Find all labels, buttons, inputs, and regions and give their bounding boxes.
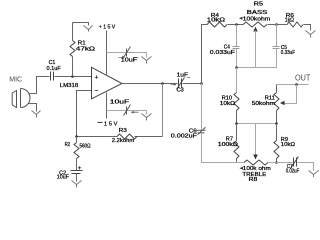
svg-text:C3: C3 xyxy=(177,87,184,93)
capacitor C1 xyxy=(51,72,54,81)
wire feedback vertical xyxy=(162,84,164,137)
svg-text:10uF: 10uF xyxy=(110,100,129,106)
wire R6 to ground xyxy=(304,25,311,31)
node junction at +input bias xyxy=(71,75,74,78)
wire op-amp output xyxy=(122,83,178,85)
wire treble wiper stem xyxy=(255,124,257,156)
node rail left xyxy=(235,66,238,69)
svg-text:BASS: BASS xyxy=(247,10,268,16)
wire C1 to op-amp + input xyxy=(55,76,92,78)
svg-text:100kΩ: 100kΩ xyxy=(218,142,238,148)
capacitor C6 xyxy=(197,127,206,135)
node feedback left junction xyxy=(75,135,78,138)
wire OUT line xyxy=(277,84,309,86)
wire mid rail xyxy=(237,123,277,125)
node C5 top xyxy=(275,23,278,26)
svg-text:LM318: LM318 xyxy=(60,83,79,89)
svg-text:2.2kohm: 2.2kohm xyxy=(112,138,134,144)
wire mic upper terminal to C1 node xyxy=(29,77,50,94)
wire tone input node down to C6 xyxy=(201,84,203,130)
capacitor C5 branch xyxy=(276,25,278,47)
svg-text:MIC: MIC xyxy=(9,75,22,84)
wire pot to C7 xyxy=(269,162,293,164)
svg-text:10kΩ: 10kΩ xyxy=(220,101,235,107)
svg-text:0.33uF: 0.33uF xyxy=(281,50,295,56)
svg-text:0.033uF: 0.033uF xyxy=(210,50,235,56)
wire C6 down to bottom rail xyxy=(202,134,245,163)
wire R1 top to ground xyxy=(73,23,89,26)
resistor R9 xyxy=(276,124,278,141)
op-amp U1 LM318 xyxy=(92,67,123,99)
potentiometer R8 TREBLE xyxy=(244,160,268,165)
wire pot to R6 xyxy=(268,24,288,26)
svg-text:15V: 15V xyxy=(104,122,118,128)
node output junction xyxy=(161,82,164,85)
capacitor C4 branch xyxy=(236,25,238,47)
svg-text:OUT: OUT xyxy=(295,74,310,83)
wire bass wiper stem xyxy=(255,31,257,68)
svg-text:1kΩ: 1kΩ xyxy=(285,17,294,23)
svg-text:100kohm: 100kohm xyxy=(243,17,270,23)
capacitor bypass 10uF (bottom) xyxy=(124,105,131,116)
capacitor C2 xyxy=(71,171,83,174)
resistor R4 xyxy=(207,22,227,27)
ground (bottom bypass) xyxy=(142,111,152,121)
resistor R3 xyxy=(117,134,137,139)
svg-text:10uF: 10uF xyxy=(121,58,137,64)
svg-text:1uF: 1uF xyxy=(177,73,188,79)
ground (C7) xyxy=(309,171,319,178)
svg-text:0.002uF: 0.002uF xyxy=(171,134,197,140)
capacitor bypass 10uF (top) xyxy=(124,47,131,58)
svg-text:0.02uF: 0.02uF xyxy=(286,169,299,175)
wire C4 node down to R10 xyxy=(236,68,238,93)
wire top bypass rail xyxy=(107,52,147,54)
wire C7 to ground xyxy=(298,163,314,171)
wire -input to feedback node xyxy=(77,91,92,137)
svg-text:R3: R3 xyxy=(119,128,127,134)
resistor R2 xyxy=(74,137,79,171)
ground (R1 top) xyxy=(84,26,93,32)
wire +15V rail xyxy=(106,31,108,75)
wire mic lower terminal to ground xyxy=(29,104,37,112)
capacitor C3 xyxy=(177,78,185,90)
wire tone input up to top rail xyxy=(202,25,208,84)
node C4 top xyxy=(235,23,238,26)
resistor R6 xyxy=(287,22,303,27)
svg-text:R2: R2 xyxy=(65,142,71,148)
wire R11 wiper xyxy=(285,85,297,104)
potentiometer R11 xyxy=(276,85,278,93)
wire feedback rail xyxy=(77,136,118,138)
ground (R6) xyxy=(306,31,316,38)
wire R4 to bass pot xyxy=(228,24,244,26)
svg-text:50kohm: 50kohm xyxy=(252,101,275,107)
wire C3 to tone input node xyxy=(183,83,202,85)
microphone MIC xyxy=(12,89,30,108)
svg-text:+15V: +15V xyxy=(99,25,116,31)
ground (mic) xyxy=(32,111,41,118)
svg-text:560Ω: 560Ω xyxy=(80,144,91,150)
capacitor C7 xyxy=(291,157,299,169)
wire bottom bypass rail xyxy=(107,110,147,112)
resistor R1 xyxy=(70,23,75,77)
svg-text:10kΩ: 10kΩ xyxy=(281,142,295,148)
resistor R7 xyxy=(236,124,238,141)
potentiometer R5 BASS xyxy=(243,22,267,27)
node tone input xyxy=(200,82,203,85)
ground (C2) xyxy=(72,174,82,188)
svg-text:10kΩ: 10kΩ xyxy=(207,18,225,24)
svg-text:R8: R8 xyxy=(249,177,258,183)
svg-text:47kΩ: 47kΩ xyxy=(76,47,95,53)
svg-text:R5: R5 xyxy=(254,2,263,8)
resistor R10 xyxy=(234,93,239,111)
ground (top bypass) xyxy=(142,53,152,64)
svg-text:0.1uF: 0.1uF xyxy=(47,66,61,72)
svg-text:10uF: 10uF xyxy=(57,175,69,181)
-15V supply xyxy=(106,93,108,119)
